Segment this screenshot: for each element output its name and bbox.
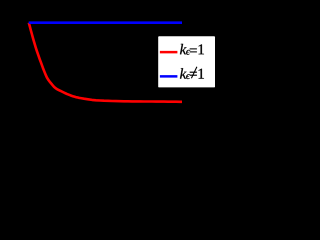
legend label k_eps=1 xyxy=(180,44,187,54)
legend box xyxy=(158,36,215,87)
legend red handle xyxy=(160,51,178,54)
legend blue handle xyxy=(160,75,178,78)
legend label k_eps!=1 xyxy=(180,68,187,78)
red curve k_eps=1 xyxy=(29,23,182,102)
plot canvas xyxy=(0,0,223,139)
blue line k_eps!=1 xyxy=(29,21,182,24)
neq slash xyxy=(191,67,197,78)
